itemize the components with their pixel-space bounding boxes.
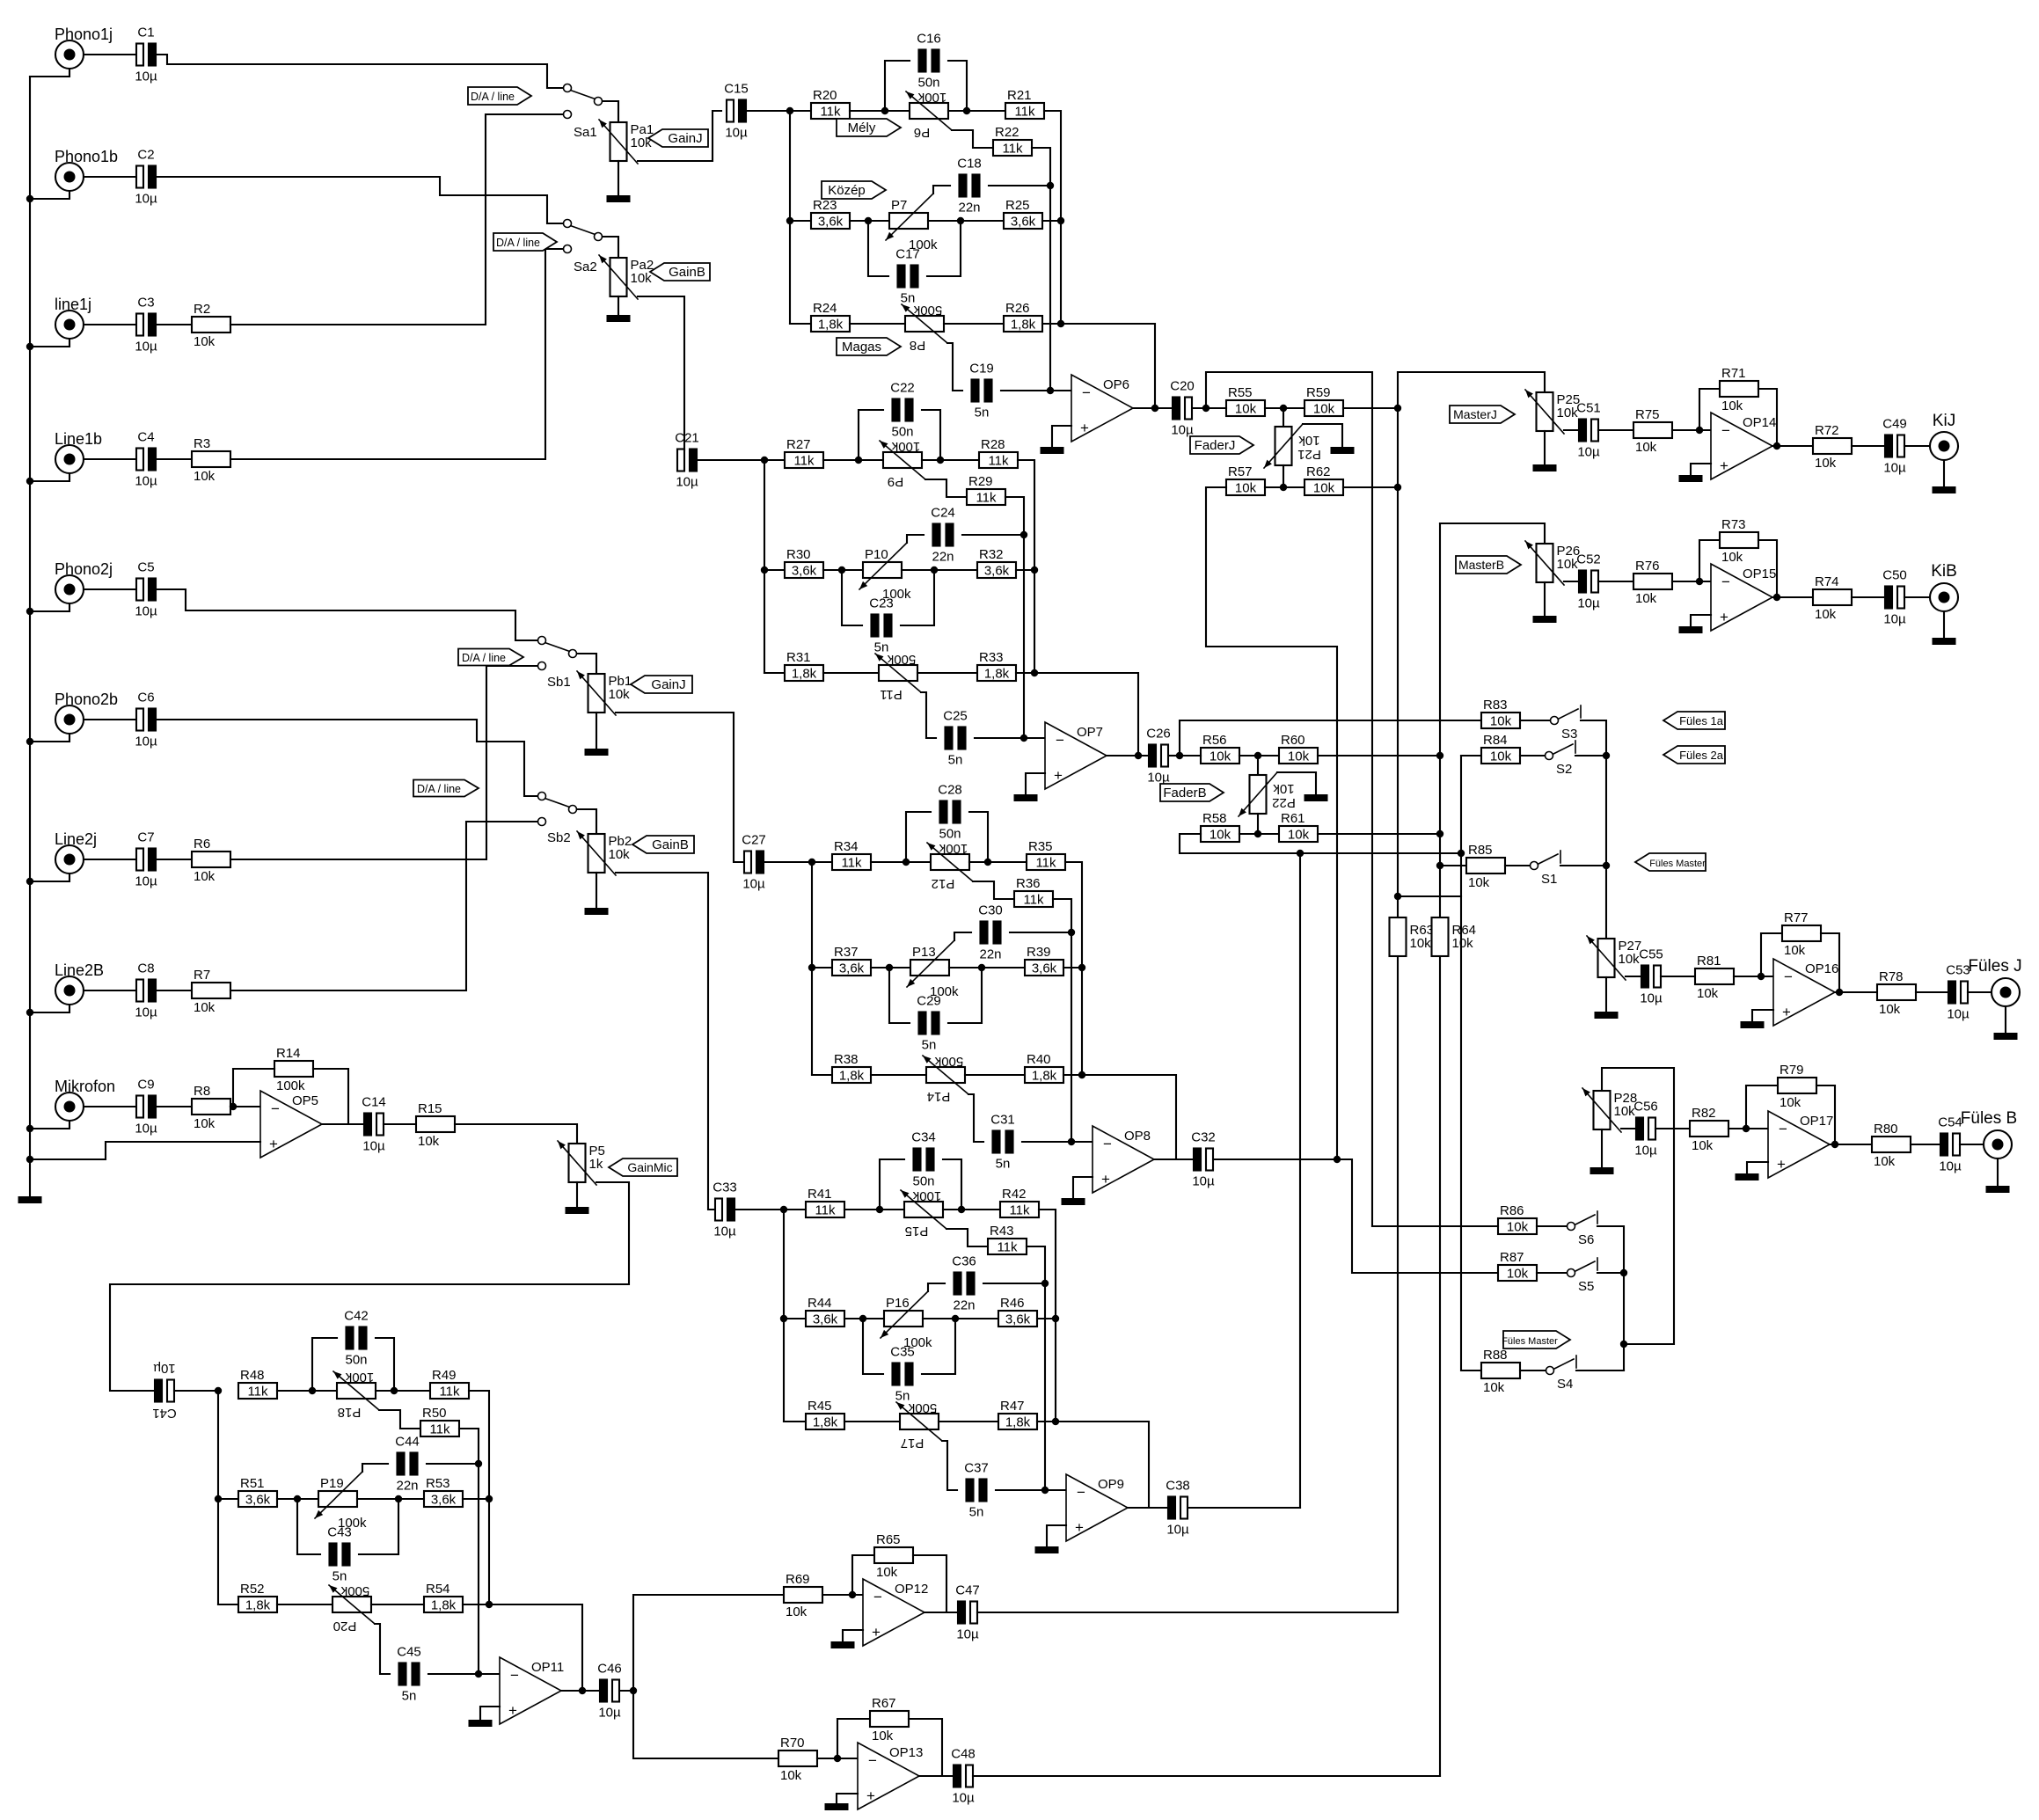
- wire: [463, 1604, 489, 1605]
- wire: [1772, 445, 1813, 447]
- wire: [1265, 486, 1305, 488]
- resistor R52: [238, 1597, 277, 1612]
- capacitor C49: [1885, 435, 1892, 457]
- svg-text:11k: 11k: [1014, 105, 1035, 120]
- wire: [1398, 895, 1461, 897]
- resistor R67: [870, 1711, 909, 1727]
- svg-text:Közép: Közép: [828, 183, 866, 198]
- wire: [84, 176, 137, 178]
- wire P28 feed: [1602, 1068, 1674, 1344]
- wire: [30, 873, 69, 881]
- junction: [1436, 862, 1443, 869]
- resistor R47: [998, 1414, 1037, 1429]
- wire R57 feed: [1206, 487, 1337, 1159]
- wire: [996, 1489, 1045, 1491]
- jack KiB: [1930, 583, 1958, 611]
- flag GainJ: [648, 129, 708, 147]
- wire: [1063, 967, 1082, 968]
- svg-text:C26: C26: [1146, 727, 1171, 742]
- svg-text:FaderJ: FaderJ: [1195, 438, 1236, 453]
- flag GainB: [650, 263, 710, 281]
- svg-text:C36: C36: [952, 1254, 976, 1269]
- switch Sb1: [545, 643, 570, 652]
- svg-text:R61: R61: [1281, 811, 1305, 826]
- resistor R29: [967, 489, 1005, 505]
- ground: [1679, 626, 1703, 633]
- svg-text:C44: C44: [395, 1435, 420, 1450]
- wire: [764, 459, 785, 461]
- wire: [84, 458, 137, 460]
- wire: [455, 1124, 577, 1144]
- svg-text:10k: 10k: [1507, 1220, 1529, 1235]
- svg-text:11k: 11k: [997, 1240, 1018, 1255]
- capacitor C31: [993, 1131, 1000, 1153]
- op-amp OP13: [858, 1743, 919, 1809]
- wire: [1943, 611, 1945, 638]
- svg-text:11k: 11k: [793, 454, 815, 469]
- resistor R74: [1813, 589, 1852, 605]
- switch S1: [1538, 854, 1558, 865]
- svg-text:Füles J: Füles J: [1968, 957, 2021, 976]
- jack Phono2b: [55, 705, 84, 734]
- junction: [1280, 405, 1287, 412]
- wire: [618, 296, 619, 315]
- svg-text:10µ: 10µ: [135, 874, 157, 889]
- svg-text:+: +: [508, 1702, 517, 1719]
- wire: [746, 110, 790, 112]
- flag D/A / line 1: [468, 87, 531, 105]
- junction: [1458, 850, 1465, 857]
- junction: [761, 457, 768, 464]
- flag MasterJ: [1450, 406, 1515, 423]
- wire: [1960, 1144, 1984, 1145]
- wire: [1601, 1129, 1603, 1167]
- svg-text:Phono2b: Phono2b: [55, 691, 118, 708]
- svg-text:50n: 50n: [917, 76, 939, 91]
- wire: [633, 1595, 784, 1691]
- svg-text:+: +: [1075, 1519, 1084, 1536]
- svg-text:5n: 5n: [895, 1389, 910, 1404]
- svg-text:KiB: KiB: [1931, 562, 1957, 581]
- svg-text:5n: 5n: [996, 1157, 1011, 1172]
- svg-text:3,6k: 3,6k: [818, 215, 844, 230]
- svg-text:C43: C43: [327, 1525, 352, 1540]
- resistor R56: [1201, 748, 1239, 764]
- svg-text:R53: R53: [426, 1476, 450, 1491]
- wire: [84, 859, 137, 860]
- ground: [1533, 464, 1557, 471]
- svg-text:C56: C56: [1633, 1100, 1658, 1115]
- junction: [215, 1387, 222, 1394]
- ground: [1014, 794, 1038, 801]
- capacitor C46: [600, 1680, 607, 1702]
- wire: [764, 861, 812, 863]
- wire: [1699, 389, 1720, 430]
- wire: [843, 1630, 863, 1641]
- potentiometer P15: [904, 1202, 943, 1217]
- svg-text:+: +: [1782, 1004, 1791, 1020]
- wire: [909, 1719, 942, 1776]
- svg-text:C49: C49: [1882, 417, 1907, 432]
- svg-text:500k: 500k: [913, 303, 942, 318]
- svg-text:P19: P19: [320, 1476, 344, 1491]
- wire R58 feed: [1180, 756, 1461, 853]
- wire: [154, 990, 192, 991]
- wire nodeB bus: [1439, 523, 1441, 917]
- svg-text:GainB: GainB: [652, 837, 689, 852]
- wire: [1042, 323, 1061, 325]
- wire: [459, 1429, 479, 1674]
- wire: [1852, 596, 1885, 598]
- resistor R85: [1466, 858, 1505, 873]
- wire: [1461, 755, 1481, 757]
- ground: [825, 1803, 849, 1810]
- junction: [958, 1206, 965, 1213]
- svg-text:10k: 10k: [631, 271, 653, 286]
- svg-text:OP5: OP5: [292, 1093, 318, 1108]
- wire: [218, 1604, 238, 1605]
- op-amp OP12: [863, 1579, 924, 1646]
- svg-text:R36: R36: [1016, 876, 1041, 891]
- resistor R65: [874, 1547, 913, 1563]
- potentiometer P22: [1250, 775, 1267, 814]
- resistor R36: [1014, 891, 1053, 907]
- junction: [1041, 1280, 1049, 1287]
- junction: [1436, 830, 1443, 837]
- svg-text:R22: R22: [995, 125, 1019, 140]
- junction: [1047, 387, 1054, 394]
- wire: [1544, 582, 1546, 616]
- flag D/A / line 3: [458, 649, 523, 666]
- svg-text:22n: 22n: [958, 201, 980, 216]
- svg-text:R21: R21: [1007, 88, 1032, 103]
- potentiometer P21: [1275, 427, 1292, 465]
- svg-text:10k: 10k: [1468, 875, 1490, 890]
- capacitor C35: [893, 1363, 900, 1385]
- resistor R58: [1201, 826, 1239, 842]
- svg-text:R24: R24: [813, 301, 837, 316]
- capacitor C55: [1641, 966, 1648, 988]
- junction: [26, 878, 33, 885]
- svg-text:10µ: 10µ: [362, 1139, 385, 1154]
- wire: [616, 873, 715, 1210]
- wire: [313, 1069, 348, 1124]
- svg-text:Mikrofon: Mikrofon: [55, 1078, 115, 1095]
- junction: [1020, 735, 1027, 742]
- potentiometer P13: [910, 960, 949, 976]
- wire: [969, 861, 1027, 863]
- wire: [1032, 148, 1050, 391]
- wire: [322, 1123, 364, 1125]
- op-amp OP14: [1711, 413, 1772, 479]
- wire: [764, 672, 785, 674]
- flag Fules Master 2: [1503, 1331, 1570, 1349]
- wire: [218, 1498, 238, 1500]
- junction: [786, 107, 793, 114]
- resistor R87: [1498, 1265, 1537, 1281]
- wire: [1257, 814, 1259, 834]
- capacitor C22: [893, 399, 900, 421]
- resistor R77: [1782, 925, 1821, 941]
- wire: [1597, 1272, 1624, 1274]
- junction: [1603, 862, 1610, 869]
- wire: [1537, 1225, 1567, 1227]
- wire: [871, 861, 931, 863]
- capacitor C51: [1579, 420, 1586, 442]
- resistor R62: [1305, 479, 1343, 495]
- svg-text:R80: R80: [1874, 1122, 1898, 1137]
- wire: [1154, 1159, 1192, 1160]
- svg-text:R70: R70: [780, 1736, 805, 1751]
- svg-text:R74: R74: [1815, 574, 1839, 589]
- wire: [576, 1182, 578, 1207]
- svg-text:−: −: [868, 1752, 877, 1769]
- capacitor C1: [136, 44, 143, 66]
- svg-text:C55: C55: [1639, 947, 1663, 962]
- svg-text:10µ: 10µ: [676, 475, 698, 490]
- svg-text:D/A / line: D/A / line: [462, 652, 506, 664]
- svg-text:+: +: [872, 1624, 881, 1641]
- wire: [880, 1159, 904, 1210]
- svg-text:10µ: 10µ: [725, 126, 748, 141]
- ground bus: [29, 77, 31, 1196]
- wire: [1073, 1177, 1093, 1198]
- wire: [596, 713, 597, 749]
- svg-text:10k: 10k: [1210, 749, 1231, 764]
- svg-text:C35: C35: [890, 1345, 915, 1360]
- wire: [1597, 1226, 1624, 1370]
- jack Line2j: [55, 845, 84, 873]
- wire: [906, 812, 931, 862]
- resistor R43: [988, 1239, 1027, 1254]
- svg-text:C47: C47: [955, 1583, 980, 1598]
- wire: [616, 713, 744, 862]
- wire: [30, 339, 69, 347]
- resistor R25: [1004, 213, 1042, 229]
- resistor R60: [1279, 748, 1318, 764]
- wire: [949, 967, 1025, 968]
- svg-text:C50: C50: [1882, 568, 1907, 583]
- wire: [633, 1691, 778, 1758]
- svg-text:5n: 5n: [948, 753, 963, 768]
- wire: [1672, 581, 1711, 582]
- resistor R64: [1432, 917, 1449, 956]
- svg-text:50n: 50n: [912, 1174, 934, 1189]
- svg-text:S4: S4: [1557, 1377, 1573, 1392]
- wire: [1752, 1010, 1773, 1021]
- wire: [944, 323, 1004, 325]
- junction: [1280, 484, 1287, 491]
- resistor R14: [274, 1061, 313, 1077]
- wire: [1997, 1159, 1999, 1186]
- svg-text:10k: 10k: [1410, 936, 1432, 951]
- wire: [233, 1069, 274, 1107]
- wire: [1052, 426, 1071, 447]
- wire: [969, 812, 988, 862]
- flag D/A / line 2: [493, 233, 557, 251]
- svg-text:C9: C9: [137, 1078, 154, 1093]
- svg-text:S3: S3: [1561, 727, 1577, 742]
- wire: [852, 1555, 874, 1595]
- svg-text:500k: 500k: [908, 1400, 937, 1415]
- jack Phono1j: [55, 40, 84, 69]
- svg-text:11k: 11k: [815, 1203, 836, 1218]
- svg-text:1,8k: 1,8k: [245, 1598, 271, 1613]
- wire: [764, 460, 765, 673]
- svg-text:5n: 5n: [333, 1569, 347, 1584]
- wire: [863, 1319, 883, 1374]
- svg-text:P18: P18: [338, 1405, 362, 1420]
- svg-text:P16: P16: [886, 1296, 910, 1311]
- svg-text:R86: R86: [1500, 1203, 1524, 1218]
- svg-text:C7: C7: [137, 830, 154, 845]
- svg-text:10k: 10k: [1784, 943, 1806, 958]
- svg-text:1,8k: 1,8k: [813, 1415, 838, 1430]
- wire: [30, 603, 69, 611]
- svg-text:line1j: line1j: [55, 296, 91, 313]
- svg-text:C27: C27: [742, 833, 766, 848]
- svg-text:Füles 1a: Füles 1a: [1679, 714, 1724, 727]
- svg-text:C20: C20: [1170, 379, 1195, 394]
- wire: [844, 1318, 884, 1319]
- capacitor C33: [715, 1199, 722, 1221]
- junction: [1758, 973, 1765, 980]
- wire: [1544, 431, 1546, 464]
- junction: [881, 107, 888, 114]
- capacitor C34: [914, 1149, 921, 1171]
- wire: [977, 1612, 1398, 1613]
- capacitor C45: [399, 1663, 406, 1685]
- wire: [463, 1498, 489, 1500]
- wire: [1440, 865, 1466, 866]
- junction: [1078, 964, 1085, 971]
- svg-text:10k: 10k: [1313, 402, 1335, 417]
- jack Mikrofon: [55, 1093, 84, 1121]
- svg-text:500k: 500k: [887, 652, 916, 667]
- op-amp OP5: [260, 1091, 322, 1158]
- svg-text:−: −: [1721, 574, 1730, 590]
- flag D/A / line 4: [413, 780, 479, 797]
- svg-text:R48: R48: [240, 1368, 265, 1383]
- svg-text:C25: C25: [943, 709, 968, 724]
- svg-text:P15: P15: [905, 1224, 929, 1239]
- svg-text:Line1b: Line1b: [55, 430, 102, 448]
- svg-text:R47: R47: [1000, 1399, 1025, 1414]
- jack Fules J: [1991, 978, 2020, 1006]
- capacitor C50: [1885, 587, 1892, 609]
- svg-text:C15: C15: [724, 82, 749, 97]
- svg-text:10k: 10k: [1313, 481, 1335, 496]
- flag Magas: [837, 338, 901, 355]
- wire: [359, 1499, 398, 1554]
- svg-text:C6: C6: [137, 691, 154, 705]
- svg-text:R81: R81: [1697, 954, 1721, 968]
- resistor R55: [1226, 400, 1265, 416]
- wire: [30, 191, 69, 199]
- svg-text:5n: 5n: [922, 1038, 937, 1053]
- svg-text:10k: 10k: [194, 1000, 216, 1015]
- resistor R73: [1720, 532, 1758, 548]
- svg-text:+: +: [1777, 1156, 1786, 1173]
- capacitor C28: [940, 801, 947, 823]
- wire: [1128, 1507, 1166, 1509]
- junction: [849, 1591, 856, 1598]
- wire nodeJ bus: [1397, 372, 1399, 917]
- wire: [638, 296, 684, 450]
- wire: [1303, 424, 1342, 447]
- svg-text:1,8k: 1,8k: [839, 1069, 865, 1084]
- wire: [1537, 1272, 1567, 1274]
- wire: [946, 1229, 988, 1246]
- ground: [1035, 1546, 1059, 1553]
- junction: [215, 1495, 222, 1502]
- svg-text:10k: 10k: [1452, 936, 1474, 951]
- svg-text:−: −: [271, 1100, 280, 1117]
- svg-text:10k: 10k: [1507, 1267, 1529, 1282]
- junction: [1334, 1156, 1341, 1163]
- resistor R28: [979, 452, 1018, 468]
- svg-text:R43: R43: [990, 1224, 1014, 1239]
- potentiometer P19: [318, 1491, 357, 1507]
- svg-text:R30: R30: [786, 547, 811, 562]
- junction: [876, 1206, 883, 1213]
- svg-text:R55: R55: [1228, 385, 1253, 400]
- svg-text:10k: 10k: [1879, 1002, 1901, 1017]
- wire OP6 cue bus: [1206, 372, 1372, 1226]
- op-amp OP15: [1711, 564, 1772, 631]
- svg-text:MasterB: MasterB: [1458, 558, 1504, 572]
- wire: [764, 569, 785, 571]
- wire: [312, 1338, 337, 1391]
- wire: [277, 1604, 333, 1605]
- svg-text:R88: R88: [1483, 1348, 1508, 1363]
- ground: [566, 1207, 589, 1214]
- wire: [1239, 833, 1279, 835]
- resistor R8: [192, 1099, 230, 1115]
- svg-text:R50: R50: [422, 1406, 447, 1421]
- svg-text:10k: 10k: [1635, 440, 1657, 455]
- resistor R54: [424, 1597, 463, 1612]
- jack line1j: [55, 311, 84, 339]
- capacitor C47: [958, 1602, 965, 1624]
- flag FaderB: [1160, 784, 1224, 801]
- junction: [1020, 531, 1027, 538]
- wire: [428, 1673, 479, 1675]
- wire: [1343, 407, 1398, 409]
- svg-text:10k: 10k: [194, 334, 216, 349]
- wire: [1916, 991, 1948, 993]
- svg-text:3,6k: 3,6k: [431, 1493, 457, 1508]
- wire: [1581, 720, 1606, 939]
- switch S3: [1558, 709, 1578, 720]
- wire: [1010, 932, 1071, 933]
- wire: [1598, 581, 1633, 582]
- wire: [1758, 389, 1777, 446]
- wire: [928, 220, 1004, 222]
- svg-text:−: −: [1103, 1136, 1112, 1152]
- wire: [230, 249, 563, 459]
- svg-text:P8: P8: [910, 338, 925, 353]
- jack Line2B: [55, 976, 84, 1005]
- potentiometer P11: [879, 665, 917, 681]
- wire: [1520, 755, 1545, 757]
- svg-text:10k: 10k: [1692, 1138, 1714, 1153]
- svg-text:R39: R39: [1027, 945, 1051, 960]
- ground: [1041, 447, 1064, 454]
- wire: [1821, 933, 1839, 992]
- svg-text:+: +: [1054, 767, 1063, 784]
- wire: [84, 719, 137, 720]
